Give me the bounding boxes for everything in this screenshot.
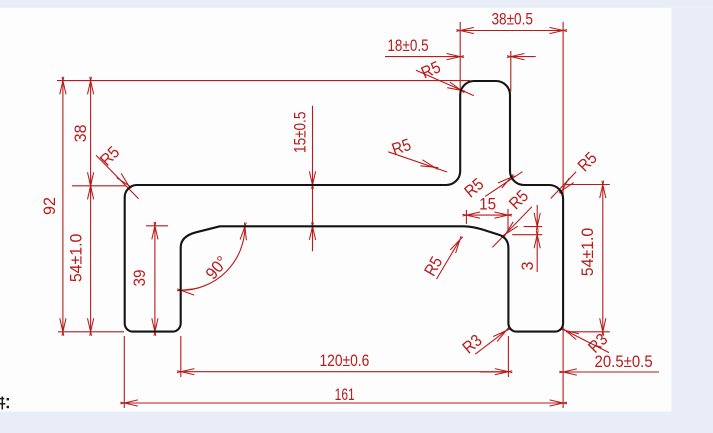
extension line step right: [507, 209, 509, 231]
svg-text:18±0.5: 18±0.5: [387, 36, 428, 55]
svg-text:3: 3: [518, 262, 537, 271]
angle dimension 90 degrees: [177, 222, 246, 295]
extension line left foot inner face: [180, 336, 182, 377]
svg-text:15: 15: [479, 195, 496, 214]
svg-text:38±0.5: 38±0.5: [491, 9, 533, 28]
extension line tab top leftward: [57, 80, 470, 82]
extension line right foot inner face: [507, 336, 509, 377]
extension line tab left face: [459, 22, 461, 93]
leader R3 bottom-right corner: [562, 328, 612, 357]
leader R5 top-left corner: [96, 143, 139, 199]
part outline: [125, 81, 563, 332]
extension line web top rightward: [566, 184, 610, 186]
dimension 20.5±0.5 right foot: [480, 352, 659, 375]
extension line web bottom over left foot: [146, 225, 168, 227]
svg-text:54±1.0: 54±1.0: [578, 228, 597, 277]
leader R5 tab top-left corner: [416, 57, 474, 95]
leader R5 tab right-base fillet: [461, 172, 523, 202]
svg-text:20.5±0.5: 20.5±0.5: [595, 352, 653, 371]
dimension 39 left foot: [130, 222, 158, 336]
label 件: bottom left (clipped): [0, 397, 9, 410]
extension line step upper surface: [524, 226, 543, 228]
dimension 3 step height: [518, 205, 541, 272]
svg-text:161: 161: [335, 385, 355, 404]
leader R5 step upper fillet: [420, 236, 462, 279]
dimension 161 overall width: [120, 385, 567, 406]
top margin strip: [0, 0, 713, 8]
extension line bottom left: [58, 331, 124, 333]
svg-text:15±0.5: 15±0.5: [291, 112, 310, 153]
dimension 54±1.0 left: [66, 175, 93, 336]
dimension 18±0.5 tab width: [385, 36, 536, 60]
extension line step left: [465, 210, 467, 224]
dimension 15±0.5 web thickness: [291, 106, 316, 252]
bottom margin strip: [0, 412, 672, 433]
extension line right edge: [562, 22, 564, 408]
dimension 38±0.5 top: [456, 9, 567, 33]
extension line left edge bottom: [123, 336, 125, 408]
right margin strip: [672, 8, 713, 433]
svg-text:54±1.0: 54±1.0: [66, 234, 85, 283]
svg-text:39: 39: [130, 270, 149, 287]
extension line web top left: [72, 185, 126, 187]
dimension 92 vertical overall: [40, 77, 66, 336]
svg-text:38: 38: [71, 125, 90, 143]
leader R5 step lower fillet: [492, 186, 532, 247]
leader R5 web-tab fillet: [388, 135, 447, 172]
dimension 38 vertical tab height: [71, 77, 94, 196]
extension line tab right face: [510, 51, 512, 91]
svg-text:120±0.6: 120±0.6: [319, 351, 369, 370]
dimension 54±1.0 right: [578, 181, 606, 336]
dimension 120±0.6: [177, 351, 512, 375]
extension line bottom rightward: [566, 331, 610, 333]
extension line step lower surface: [512, 234, 542, 236]
leader R5 right-end corner: [551, 148, 601, 198]
dimension 15 step width: [463, 195, 512, 219]
svg-text:92: 92: [40, 197, 59, 215]
leader R3 right-foot inner corner: [459, 328, 510, 358]
